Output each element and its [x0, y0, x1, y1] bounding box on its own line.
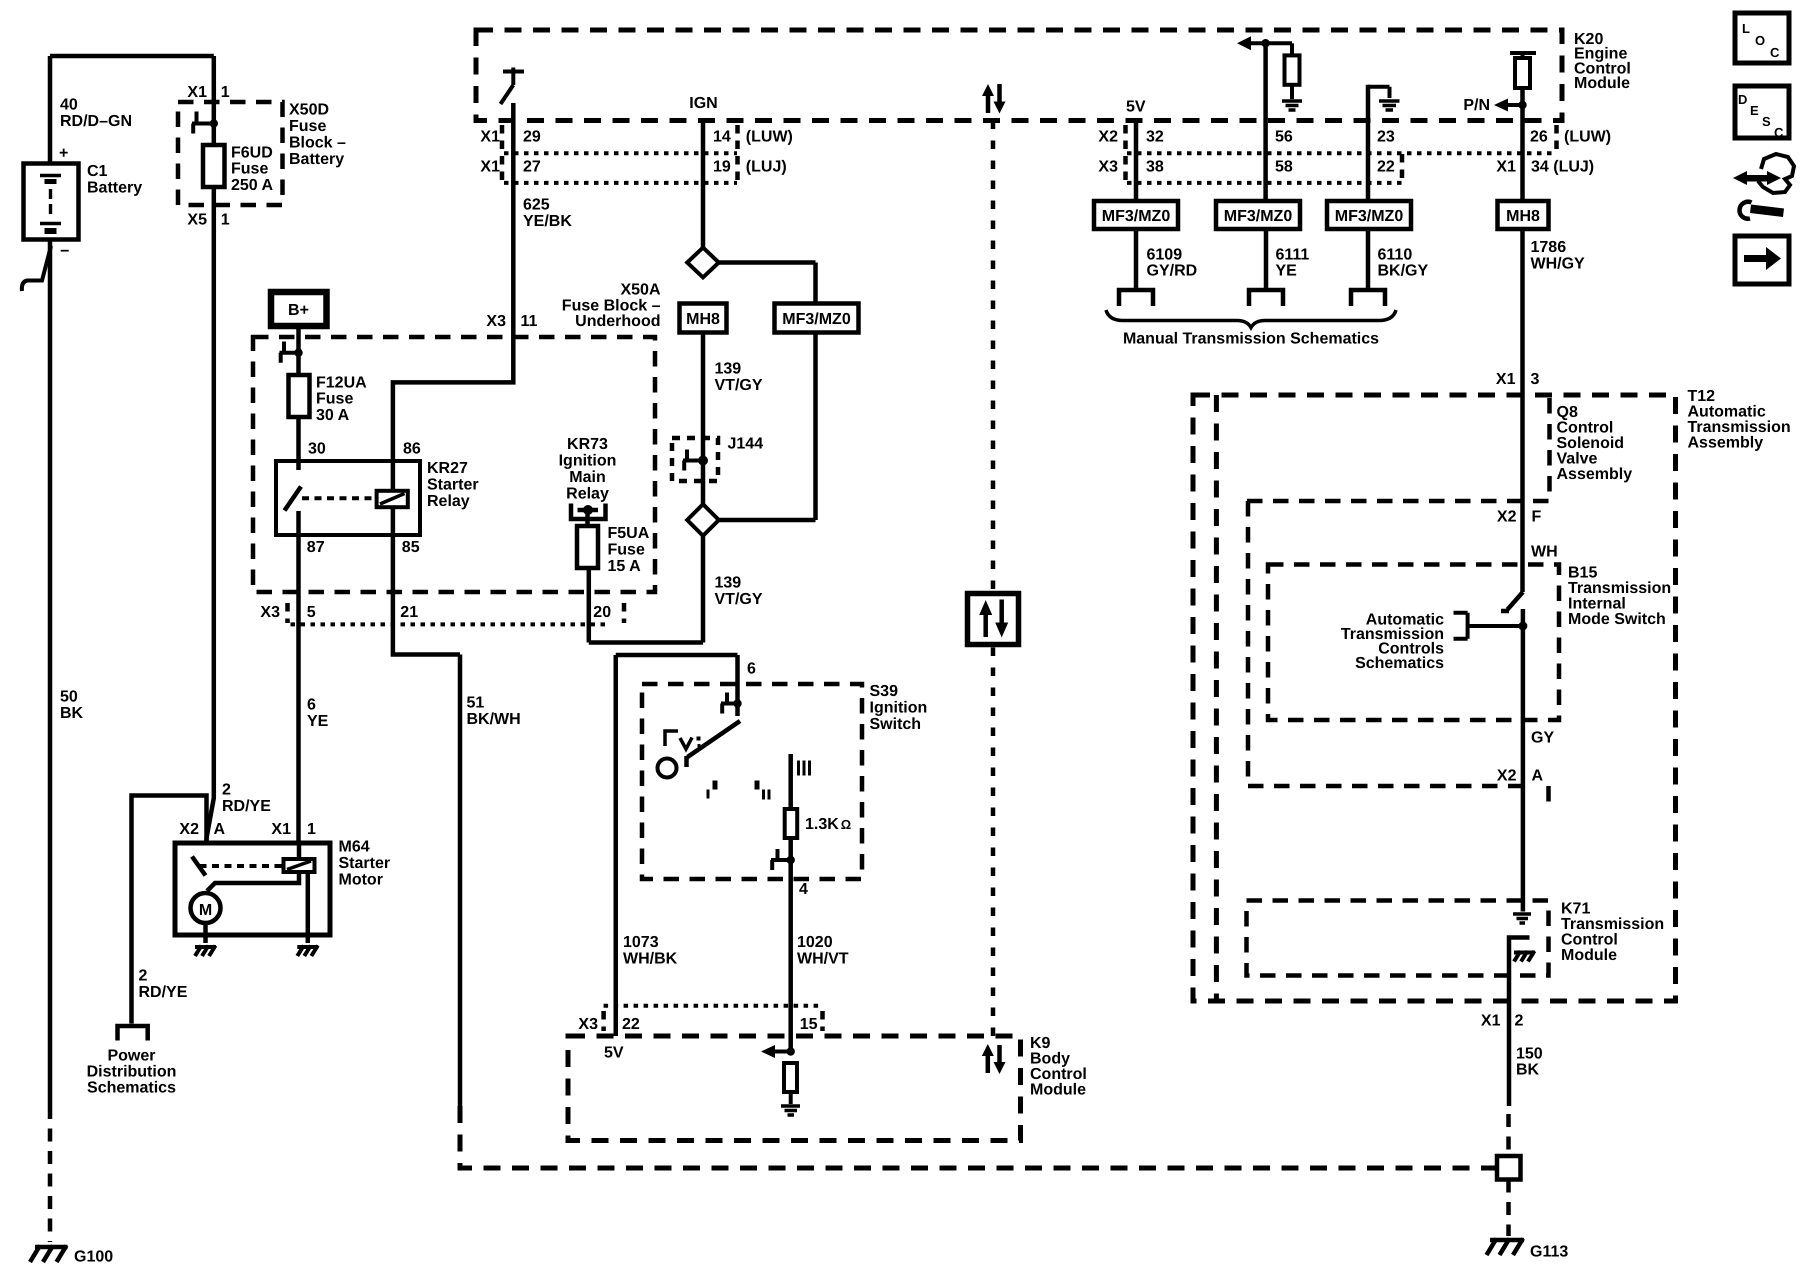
- svg-text:20: 20: [593, 604, 611, 621]
- svg-text:RD/D–GN: RD/D–GN: [60, 113, 132, 130]
- wire diamond to MF3/MZ0 branch: [719, 263, 816, 304]
- wire 6111 YE: [1264, 229, 1269, 288]
- pin separator right of 22: [1400, 154, 1405, 182]
- svg-text:Block –: Block –: [289, 135, 346, 152]
- svg-text:Starter: Starter: [339, 855, 391, 872]
- wire pin 56: [1263, 43, 1268, 201]
- svg-text:B15: B15: [1568, 564, 1597, 581]
- wire ignition feed to S39 pin 6: [616, 655, 738, 1036]
- wire 1020 WH/VT: [788, 879, 793, 1052]
- svg-text:C: C: [1774, 125, 1784, 140]
- svg-text:P/N: P/N: [1463, 97, 1490, 114]
- svg-text:Transmission: Transmission: [1688, 419, 1791, 436]
- svg-text:RD/YE: RD/YE: [222, 798, 271, 815]
- svg-text:YE: YE: [307, 713, 329, 730]
- svg-text:C1: C1: [87, 163, 108, 180]
- battery negative clamp: [22, 246, 51, 291]
- svg-text:+: +: [59, 145, 68, 162]
- serial data bus dashed vertical: [991, 121, 996, 1037]
- connector row X3 bottom of X50A: [291, 622, 609, 626]
- connector MF3/MZ0 col 2: [1216, 201, 1300, 229]
- internal sense arrow in K9: [761, 1045, 795, 1058]
- svg-text:2: 2: [1515, 1013, 1524, 1030]
- wire 625 feed inside K20: [511, 103, 516, 121]
- connector MF3/MZ0 upper: [775, 304, 859, 333]
- chassis ground symbol in K71: [1514, 951, 1535, 962]
- svg-text:MF3/MZ0: MF3/MZ0: [1102, 208, 1171, 225]
- svg-text:GY/RD: GY/RD: [1147, 263, 1198, 280]
- wire K71 ground output 150 BK: [1509, 938, 1530, 1107]
- svg-text:Control: Control: [1557, 420, 1614, 437]
- connector row line right 1: [1127, 151, 1556, 155]
- branch to automatic transmission controls: [1454, 613, 1523, 639]
- connector row line right 2: [1127, 181, 1402, 185]
- svg-text:15: 15: [800, 1016, 818, 1033]
- svg-text:MF3/MZ0: MF3/MZ0: [1224, 208, 1293, 225]
- wire 2 RD/YE from X5 to starter M64: [207, 187, 214, 843]
- position mark III: [797, 761, 811, 776]
- svg-text:38: 38: [1146, 158, 1164, 175]
- svg-text:Main: Main: [569, 469, 605, 486]
- wire 625 YE/BK to X50A: [393, 121, 513, 462]
- svg-text:6: 6: [747, 661, 756, 678]
- motor M64 starter motor: [175, 843, 330, 943]
- wire battery positive to X1 top link: [50, 56, 214, 165]
- pin separator IGN right: [735, 125, 740, 184]
- solenoid assembly Q8 boundary: [1247, 395, 1550, 501]
- svg-text:BK/GY: BK/GY: [1378, 263, 1429, 280]
- internal ground leg 23 in K20: [1368, 87, 1400, 110]
- svg-text:Ignition: Ignition: [559, 453, 617, 470]
- legend DESC box: [1735, 86, 1789, 140]
- wire 50 BK battery to G100: [48, 240, 53, 1106]
- relay KR73 output node: [571, 504, 606, 520]
- svg-text:(LUW): (LUW): [1564, 128, 1611, 145]
- svg-text:G113: G113: [1530, 1244, 1568, 1261]
- internal resistor to ground leg 56 in K20: [1237, 36, 1302, 110]
- svg-text:50: 50: [60, 689, 78, 706]
- svg-text:BK: BK: [1516, 1062, 1540, 1079]
- svg-text:X1: X1: [187, 84, 207, 101]
- svg-text:A: A: [214, 821, 226, 838]
- svg-text:YE: YE: [1276, 263, 1298, 280]
- wire 51 BK/WH relay 85 down: [393, 535, 460, 1106]
- svg-text:Module: Module: [1030, 1082, 1086, 1099]
- module K20 engine control module boundary: [476, 30, 1562, 121]
- svg-text:3: 3: [1531, 371, 1540, 388]
- svg-text:Automatic: Automatic: [1688, 404, 1766, 421]
- svg-text:6109: 6109: [1147, 246, 1183, 263]
- svg-text:BK: BK: [60, 705, 84, 722]
- wire IGN output: [701, 121, 706, 250]
- svg-text:1: 1: [307, 821, 316, 838]
- svg-text:139: 139: [715, 361, 742, 378]
- svg-text:IGN: IGN: [689, 95, 717, 112]
- off-page bracket col 3: [1351, 290, 1385, 306]
- svg-text:(LUW): (LUW): [746, 128, 793, 145]
- ground G113: [1487, 1239, 1569, 1261]
- svg-text:Power: Power: [107, 1048, 155, 1065]
- svg-text:K9: K9: [1030, 1035, 1051, 1052]
- position mark I: [707, 781, 718, 799]
- terminal at pin 6: [721, 693, 742, 714]
- svg-text:(LUJ): (LUJ): [746, 158, 787, 175]
- svg-text:X3: X3: [1098, 158, 1118, 175]
- off-page bracket power distribution: [118, 1026, 148, 1041]
- svg-text:O: O: [1755, 33, 1765, 48]
- terminal in X50D with junction: [192, 112, 218, 134]
- key symbol: [658, 731, 701, 778]
- wire 2 RD/YE loop to power distribution: [132, 796, 207, 1024]
- svg-text:A: A: [1532, 767, 1544, 784]
- node junction B15: [1518, 622, 1527, 631]
- wire 139 VT/GY below diamond: [589, 536, 703, 643]
- svg-text:87: 87: [307, 539, 325, 556]
- svg-text:51: 51: [467, 695, 485, 712]
- svg-text:139: 139: [715, 575, 742, 592]
- wire 6 YE relay 87 to M64: [296, 535, 301, 843]
- bus arrows in K9: [982, 1044, 1006, 1074]
- fuse F5UA 15 A: [577, 526, 598, 568]
- svg-text:S39: S39: [870, 683, 899, 700]
- node B+: [271, 292, 327, 326]
- svg-text:X2: X2: [1098, 128, 1118, 145]
- svg-text:14: 14: [713, 128, 731, 145]
- wire 5V pin 32/38: [1134, 121, 1139, 202]
- brace manual transmission: [1106, 310, 1396, 328]
- svg-text:1: 1: [221, 84, 230, 101]
- svg-text:Fuse Block –: Fuse Block –: [562, 297, 661, 314]
- wire KR73 to fuse F5UA: [585, 510, 590, 526]
- svg-text:Manual Transmission Schematics: Manual Transmission Schematics: [1123, 331, 1379, 348]
- svg-text:VT/GY: VT/GY: [715, 591, 763, 608]
- svg-text:22: 22: [1377, 158, 1395, 175]
- svg-text:Schematics: Schematics: [87, 1079, 176, 1096]
- connector row line 2: [504, 181, 737, 185]
- svg-text:X1: X1: [480, 158, 500, 175]
- connector X2 boundary box: [1248, 501, 1549, 812]
- svg-text:Q8: Q8: [1557, 404, 1578, 421]
- svg-text:X1: X1: [1481, 1013, 1501, 1030]
- svg-text:1786: 1786: [1531, 239, 1567, 256]
- svg-text:625: 625: [523, 197, 550, 214]
- connector row X3 at K9: [604, 1004, 823, 1008]
- svg-text:MF3/MZ0: MF3/MZ0: [1335, 208, 1404, 225]
- wire MF3/MZ0 branch to lower diamond: [719, 333, 816, 521]
- svg-text:1: 1: [221, 212, 230, 229]
- svg-text:Motor: Motor: [339, 872, 383, 889]
- svg-text:F5UA: F5UA: [608, 525, 650, 542]
- svg-text:Relay: Relay: [566, 485, 609, 502]
- svg-text:−: −: [60, 243, 69, 260]
- svg-text:30 A: 30 A: [316, 407, 350, 424]
- off-page bracket col 2: [1249, 290, 1283, 306]
- svg-text:Internal: Internal: [1568, 595, 1626, 612]
- wire 1786 WH/GY: [1520, 229, 1525, 592]
- svg-text:Module: Module: [1561, 947, 1617, 964]
- svg-text:6110: 6110: [1378, 246, 1413, 263]
- svg-text:Switch: Switch: [870, 716, 922, 733]
- svg-text:Underhood: Underhood: [575, 313, 660, 330]
- fuse block X50A boundary: [253, 337, 655, 592]
- svg-text:1.3KΩ: 1.3KΩ: [805, 816, 851, 833]
- svg-text:250 A: 250 A: [231, 177, 274, 194]
- bus inline connector box with arrows: [968, 594, 1019, 645]
- svg-text:M: M: [199, 902, 212, 919]
- svg-text:Ignition: Ignition: [870, 699, 928, 716]
- fuse block X50D boundary: [178, 102, 283, 205]
- svg-text:X1: X1: [271, 821, 291, 838]
- connector J144: [672, 438, 718, 481]
- switch B15 transmission internal mode switch boundary: [1268, 565, 1559, 721]
- wire resistor to pin 4: [788, 838, 793, 879]
- fuse F6UD 250 A: [203, 145, 225, 187]
- svg-text:85: 85: [402, 539, 420, 556]
- module K9 body control module boundary: [568, 1036, 1021, 1141]
- svg-text:X2: X2: [1497, 508, 1517, 525]
- svg-text:Fuse: Fuse: [231, 161, 268, 178]
- svg-text:29: 29: [523, 128, 541, 145]
- wire pin 23: [1366, 85, 1371, 201]
- svg-text:S: S: [1762, 114, 1771, 129]
- wire fuse to relay pin 30: [296, 417, 301, 461]
- svg-text:B+: B+: [288, 302, 309, 319]
- wire 6110 BK/GY: [1366, 229, 1371, 288]
- terminal below B+: [280, 342, 303, 363]
- resistor 1.3K ohm: [785, 809, 798, 838]
- ground at solenoid coil: [297, 946, 318, 957]
- svg-text:2: 2: [139, 968, 148, 985]
- svg-text:30: 30: [308, 441, 326, 458]
- svg-text:L: L: [1742, 21, 1750, 36]
- svg-text:2: 2: [222, 782, 231, 799]
- svg-text:WH/BK: WH/BK: [623, 950, 678, 967]
- svg-text:4: 4: [799, 881, 808, 898]
- svg-text:D: D: [1738, 92, 1747, 107]
- svg-text:32: 32: [1146, 128, 1164, 145]
- svg-text:150: 150: [1516, 1045, 1543, 1062]
- svg-text:X3: X3: [578, 1016, 598, 1033]
- svg-text:Assembly: Assembly: [1557, 466, 1633, 483]
- pin separator X1 left: [500, 125, 505, 184]
- svg-text:Transmission: Transmission: [1561, 916, 1664, 933]
- svg-text:F12UA: F12UA: [316, 374, 367, 391]
- svg-text:Fuse: Fuse: [289, 118, 326, 135]
- wire 51 dashed continuation and bottom bus: [460, 1106, 1497, 1168]
- connector MF3/MZ0 col 3: [1327, 201, 1411, 229]
- svg-text:5V: 5V: [604, 1045, 624, 1062]
- svg-text:Schematics: Schematics: [1355, 655, 1444, 672]
- svg-text:MH8: MH8: [686, 311, 720, 328]
- wire B+ to fuse F12UA: [296, 326, 301, 375]
- svg-text:6111: 6111: [1276, 246, 1310, 263]
- switch blade B15: [1501, 592, 1523, 611]
- inline connector square at G113 branch: [1497, 1156, 1521, 1180]
- svg-text:WH: WH: [1531, 543, 1558, 560]
- svg-text:F: F: [1532, 508, 1542, 525]
- svg-text:1020: 1020: [797, 934, 833, 951]
- svg-text:GY: GY: [1531, 729, 1554, 746]
- connector MH8 right: [1498, 201, 1549, 229]
- svg-text:MH8: MH8: [1506, 208, 1540, 225]
- svg-text:WH/VT: WH/VT: [797, 950, 849, 967]
- svg-text:X3: X3: [260, 604, 280, 621]
- svg-text:23: 23: [1377, 128, 1395, 145]
- svg-text:X1: X1: [1496, 158, 1516, 175]
- svg-text:Fuse: Fuse: [608, 541, 645, 558]
- svg-text:Fuse: Fuse: [316, 391, 353, 408]
- svg-text:X5: X5: [187, 212, 207, 229]
- svg-text:KR27: KR27: [427, 460, 468, 477]
- svg-text:1073: 1073: [623, 934, 659, 951]
- svg-text:6: 6: [307, 696, 316, 713]
- svg-text:19: 19: [713, 158, 731, 175]
- svg-text:BK/WH: BK/WH: [467, 711, 521, 728]
- wire 139 VT/GY below MH8: [701, 333, 706, 438]
- svg-text:Battery: Battery: [289, 151, 344, 168]
- wire 6109 GY/RD: [1134, 229, 1139, 288]
- legend forward arrow box: [1735, 236, 1789, 284]
- svg-text:Assembly: Assembly: [1688, 435, 1764, 452]
- svg-text:MF3/MZ0: MF3/MZ0: [782, 311, 851, 328]
- wire position III to resistor: [788, 754, 793, 809]
- svg-text:J144: J144: [728, 436, 764, 453]
- wire through J144: [701, 437, 706, 504]
- legend LOC box: [1735, 13, 1789, 63]
- svg-text:X3: X3: [486, 313, 506, 330]
- svg-text:X1: X1: [1496, 371, 1516, 388]
- terminal below resistor: [771, 849, 795, 870]
- connector MH8 upper: [680, 304, 727, 333]
- svg-text:RD/YE: RD/YE: [139, 984, 188, 1001]
- svg-text:Transmission: Transmission: [1568, 580, 1671, 597]
- module K71 transmission control module boundary: [1247, 901, 1549, 976]
- svg-text:40: 40: [60, 97, 78, 114]
- svg-text:Valve: Valve: [1557, 451, 1598, 468]
- svg-text:YE/BK: YE/BK: [523, 213, 572, 230]
- svg-text:Control: Control: [1561, 931, 1618, 948]
- svg-text:Solenoid: Solenoid: [1557, 435, 1625, 452]
- svg-text:T12: T12: [1688, 388, 1716, 405]
- svg-text:X50A: X50A: [620, 282, 660, 299]
- svg-text:X50D: X50D: [289, 102, 329, 119]
- svg-text:56: 56: [1275, 128, 1293, 145]
- splice diamond upper: [687, 248, 719, 278]
- svg-text:Body: Body: [1030, 1051, 1070, 1068]
- relay KR27 starter relay: [276, 461, 420, 535]
- svg-text:K71: K71: [1561, 900, 1590, 917]
- bus arrows at K20: [982, 84, 1006, 114]
- wire pin 26/34 MH8: [1520, 88, 1525, 201]
- switch S39 ignition switch boundary: [642, 684, 862, 879]
- svg-text:F6UD: F6UD: [231, 144, 273, 161]
- battery C1: [24, 145, 79, 260]
- wire B15 to ground: [1521, 609, 1526, 912]
- svg-text:21: 21: [400, 604, 418, 621]
- switch blade S39: [687, 704, 741, 768]
- svg-text:G100: G100: [74, 1249, 113, 1266]
- ground at motor: [195, 946, 216, 957]
- svg-text:M64: M64: [339, 839, 370, 856]
- svg-text:Mode Switch: Mode Switch: [1568, 611, 1666, 628]
- svg-text:26: 26: [1530, 128, 1548, 145]
- svg-text:5: 5: [307, 604, 316, 621]
- wire 150 BK dashed to square: [1506, 1114, 1511, 1236]
- svg-text:27: 27: [523, 158, 541, 175]
- svg-text:34 (LUJ): 34 (LUJ): [1531, 158, 1594, 175]
- svg-text:X2: X2: [1497, 767, 1517, 784]
- svg-text:VT/GY: VT/GY: [715, 377, 763, 394]
- svg-text:Control: Control: [1030, 1066, 1087, 1083]
- svg-text:11: 11: [521, 313, 538, 330]
- svg-text:22: 22: [622, 1016, 640, 1033]
- internal ground in K71: [1513, 914, 1531, 923]
- svg-text:WH/GY: WH/GY: [1531, 255, 1586, 272]
- svg-text:C: C: [1770, 45, 1780, 60]
- svg-text:KR73: KR73: [567, 436, 608, 453]
- svg-text:15 A: 15 A: [608, 558, 642, 575]
- svg-text:Module: Module: [1574, 75, 1630, 92]
- svg-text:E: E: [1750, 103, 1759, 118]
- connector row line 1: [504, 151, 737, 155]
- position mark II: [755, 781, 771, 800]
- internal resistor to ground in K9: [781, 1063, 800, 1115]
- svg-text:86: 86: [403, 441, 421, 458]
- legend interchange icon: [1733, 154, 1794, 219]
- pin separator X2/X3: [1123, 125, 1128, 184]
- internal resistor P/N leg in K20: [1494, 53, 1536, 112]
- svg-text:X1: X1: [480, 128, 500, 145]
- connector MF3/MZ0 col 1: [1094, 201, 1178, 229]
- inner harness boundary line: [1214, 395, 1219, 1001]
- internal switch in K20: [501, 68, 525, 105]
- svg-text:5V: 5V: [1126, 99, 1146, 116]
- svg-text:58: 58: [1275, 158, 1293, 175]
- fuse F12UA 30 A: [289, 375, 310, 417]
- svg-text:Battery: Battery: [87, 179, 142, 196]
- assembly T12 automatic transmission boundary: [1193, 395, 1676, 1001]
- ground G100: [30, 1246, 113, 1266]
- svg-text:Starter: Starter: [427, 477, 479, 494]
- svg-text:X2: X2: [179, 821, 199, 838]
- splice diamond lower: [687, 504, 719, 536]
- svg-text:Distribution: Distribution: [87, 1064, 177, 1081]
- off-page bracket col 1: [1119, 290, 1153, 306]
- svg-text:Relay: Relay: [427, 493, 470, 510]
